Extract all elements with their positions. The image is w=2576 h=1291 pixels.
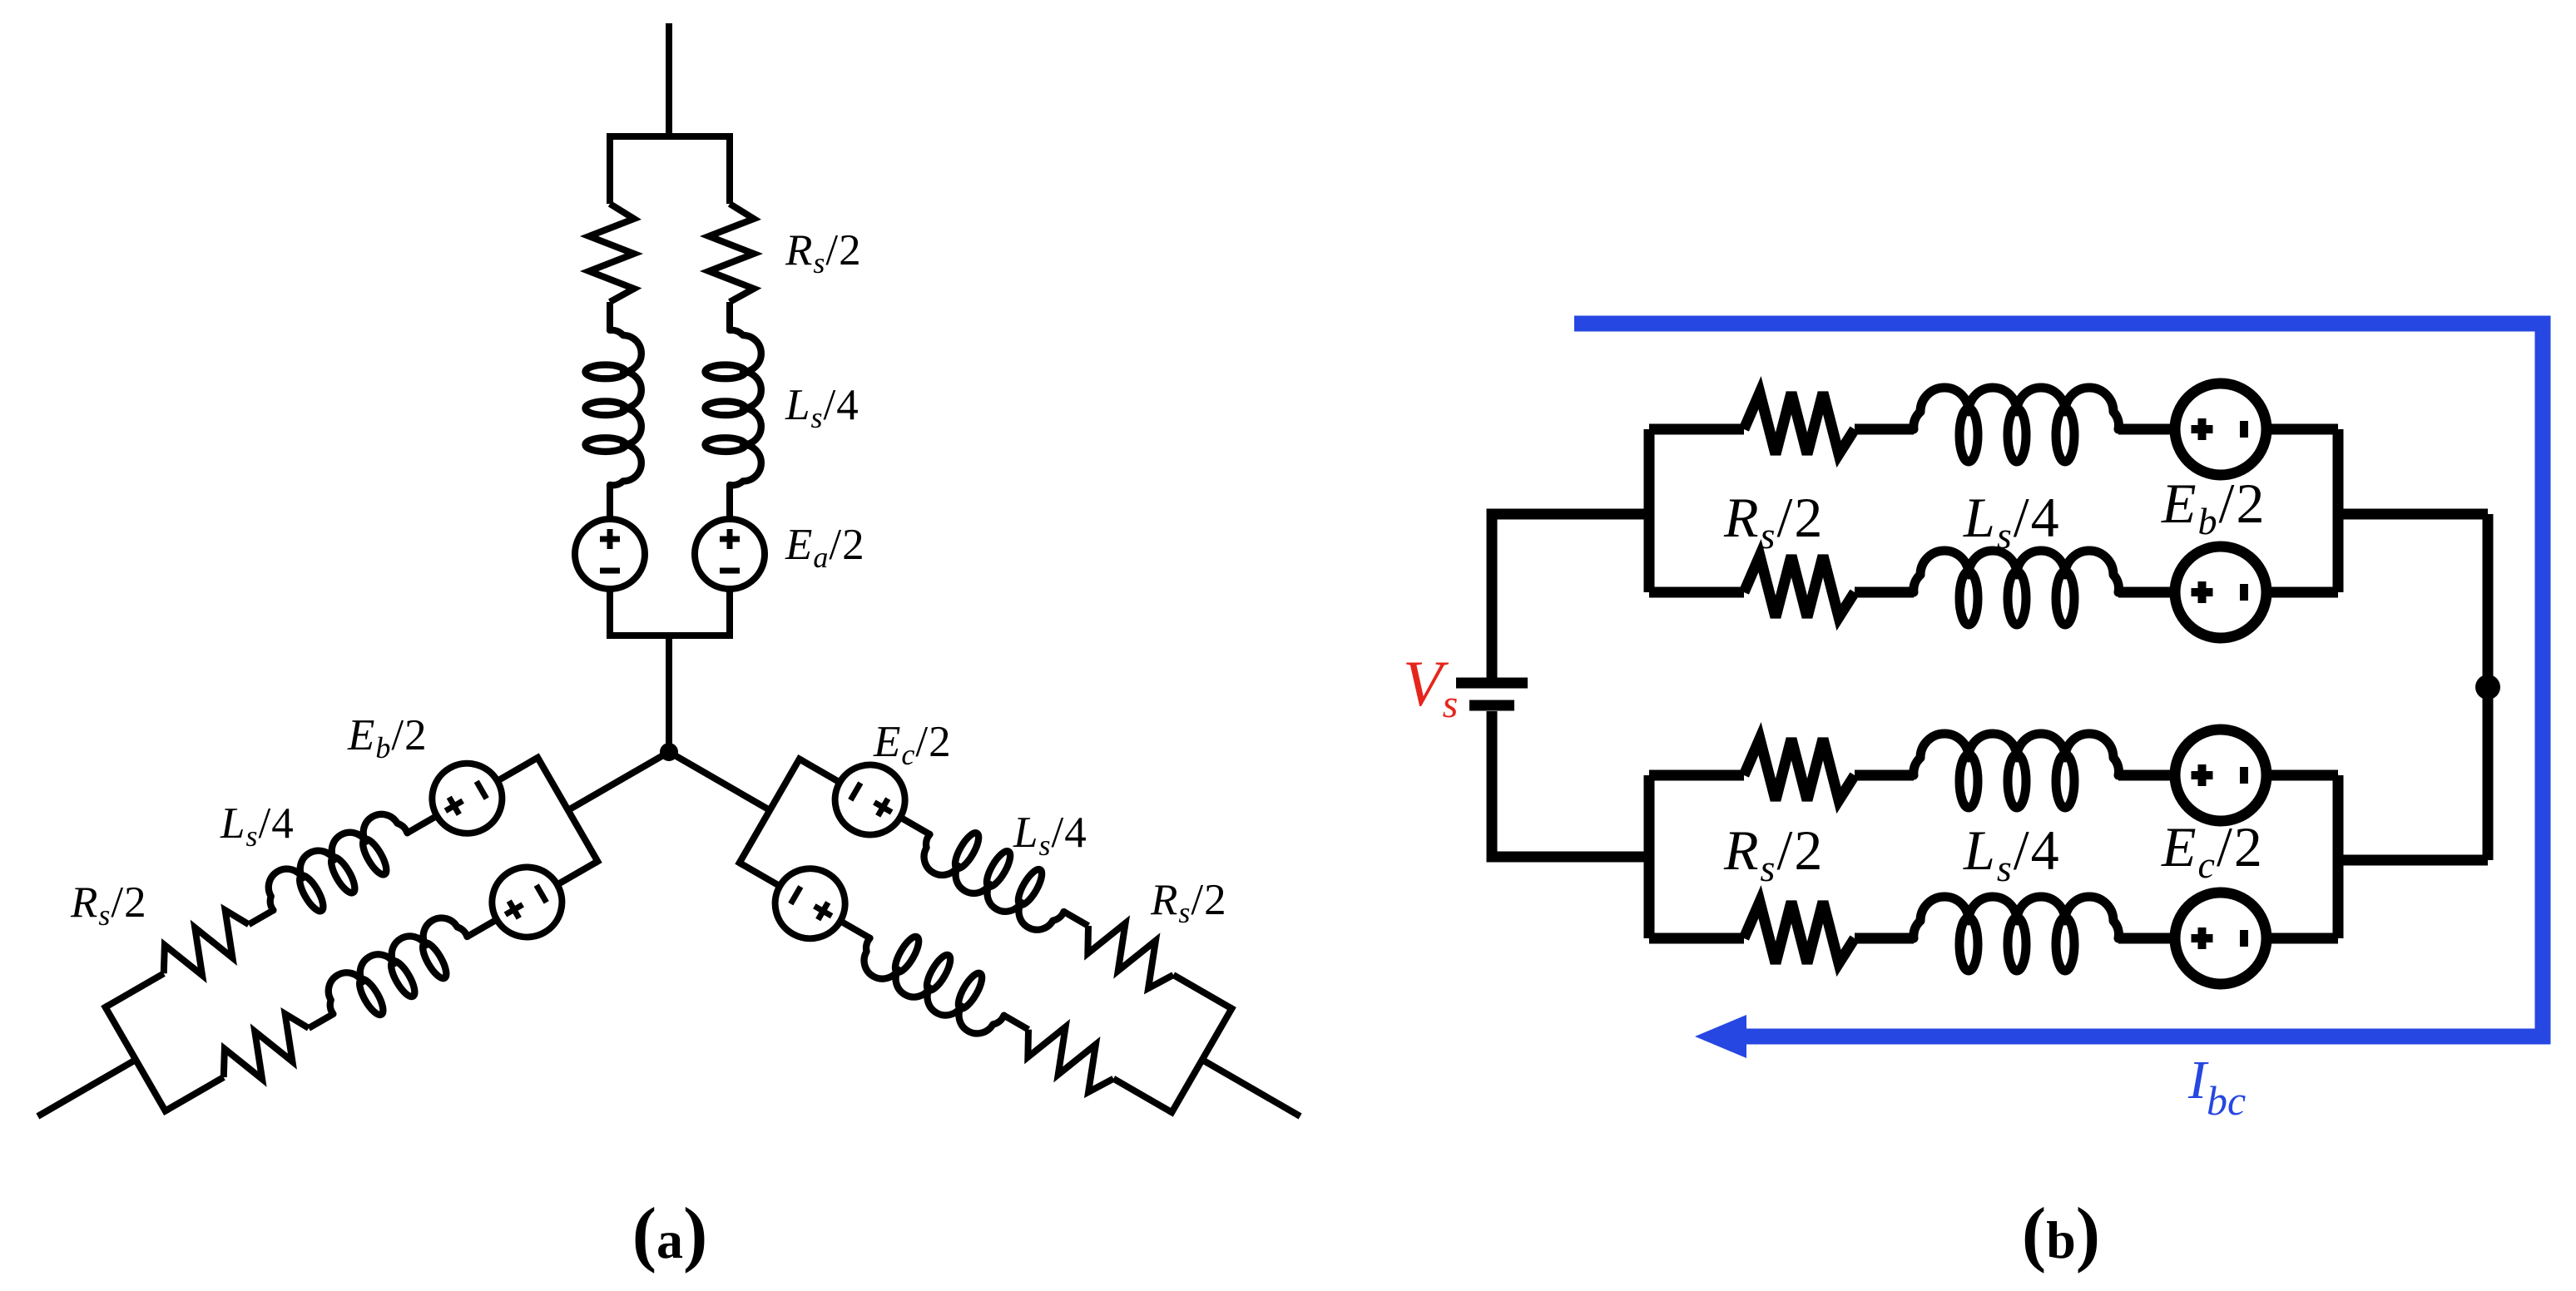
right vertical wire	[2483, 514, 2494, 860]
phase b branch (Rs/2, Ls/4, Eb/2 parallel pair, pointing down-left)	[0, 669, 716, 1197]
battery long bar	[1456, 678, 1528, 689]
junction node	[2475, 675, 2500, 700]
battery bottom wire	[1492, 711, 1649, 857]
top parallel pair (Rs/2, Ls/4, Eb/2)	[1649, 383, 2488, 638]
battery short bar	[1469, 700, 1514, 711]
bottom parallel pair (Rs/2, Ls/4, Ec/2)	[1649, 730, 2488, 984]
battery Vs: top wire	[1492, 514, 1649, 678]
blue current loop Ibc	[1574, 324, 2543, 1036]
blue arrowhead	[1695, 1015, 1746, 1058]
phase c branch (Rs/2, Ls/4, Ec/2 parallel pair, pointing down-right)	[622, 670, 1348, 1199]
neutral node	[660, 743, 678, 761]
phase a branch (Rs/2, Ls/4, Ea/2 parallel pair, pointing up)	[575, 23, 765, 752]
